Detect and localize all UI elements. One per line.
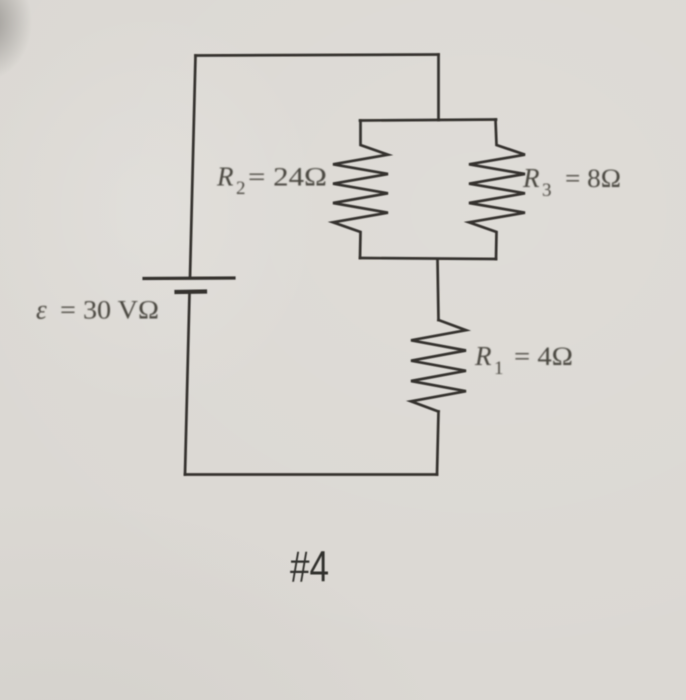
svg-text:3: 3 (542, 180, 552, 201)
svg-text:= 8Ω: = 8Ω (565, 164, 621, 193)
svg-text:R: R (522, 163, 540, 193)
wire right vertical top (top wire into parallel box) (437, 55, 440, 121)
svg-text:R: R (474, 341, 492, 371)
wire left vertical lower (battery to bottom wire) (185, 293, 190, 475)
svg-text:1: 1 (494, 358, 504, 379)
wire left vertical upper (top wire to battery) (190, 56, 196, 278)
svg-text:2: 2 (236, 178, 246, 199)
wire top horizontal (196, 55, 439, 56)
svg-text:#4: #4 (290, 543, 329, 592)
resistor R3 (8 ohm, right branch zigzag) (469, 120, 525, 260)
resistor R1 (4 ohm, series zigzag) (411, 320, 466, 412)
svg-text:R: R (216, 162, 234, 192)
wire parallel-box top rail (360, 120, 496, 121)
wire R1 bottom to bottom rail (437, 412, 439, 475)
battery EMF source long plate (144, 276, 234, 280)
wire parallel-box bottom rail (360, 258, 496, 259)
wire from box bottom to R1 (438, 259, 439, 320)
svg-text:= 4Ω: = 4Ω (514, 342, 573, 371)
battery EMF source short plate (177, 289, 206, 294)
svg-text:ε: ε (36, 295, 47, 325)
svg-text:= 24Ω: = 24Ω (248, 163, 327, 192)
resistor R2 (24 ohm, left branch zigzag) (333, 121, 388, 259)
svg-text:= 30 VΩ: = 30 VΩ (60, 296, 159, 325)
wire bottom horizontal (185, 473, 437, 476)
